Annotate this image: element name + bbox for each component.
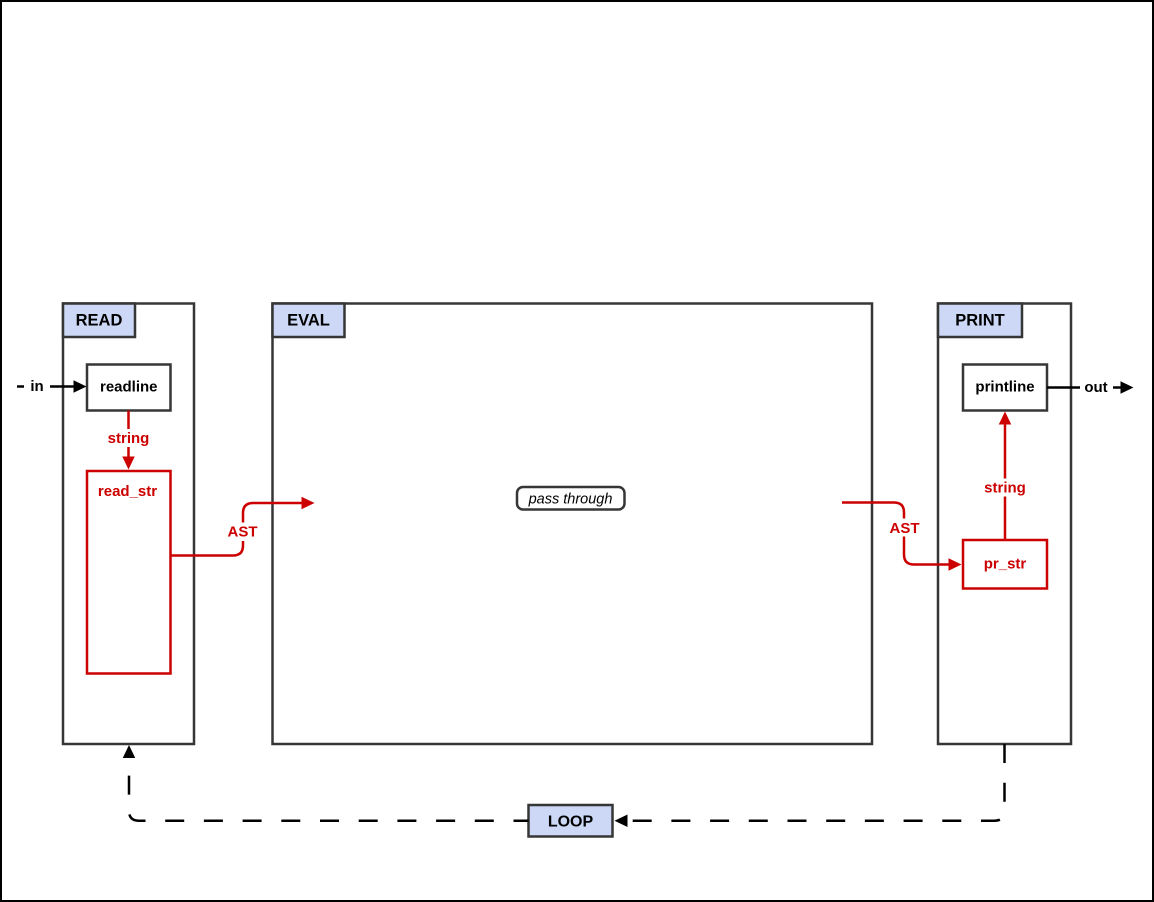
- svg-text:AST: AST: [890, 520, 920, 537]
- string arrow (left, readline -> read_str): [105, 411, 152, 470]
- PRINT label: [938, 304, 1022, 338]
- pr_str box: [963, 540, 1047, 589]
- dashed arrow PRINT -> LOOP: [615, 744, 1005, 827]
- string arrow (right, pr_str -> printline): [981, 412, 1029, 541]
- READ label: [63, 304, 135, 338]
- svg-text:in: in: [30, 378, 43, 395]
- EVAL label: [273, 304, 345, 338]
- svg-text:string: string: [108, 430, 150, 447]
- read_str box: [87, 471, 171, 674]
- printline box: [963, 365, 1047, 411]
- pass through box: [517, 487, 625, 510]
- svg-text:AST: AST: [228, 524, 258, 541]
- svg-text:EVAL: EVAL: [287, 312, 330, 330]
- svg-text:pass through: pass through: [528, 492, 613, 508]
- svg-text:pr_str: pr_str: [984, 556, 1027, 573]
- out arrow: [1047, 379, 1134, 397]
- readline box: [87, 365, 171, 411]
- dashed arrow LOOP -> READ: [123, 745, 529, 821]
- READ outer box: [63, 304, 194, 745]
- svg-text:READ: READ: [76, 312, 123, 330]
- PRINT outer box: [938, 304, 1071, 745]
- in arrow: [17, 378, 87, 396]
- AST arrow (right, EVAL -> pr_str): [842, 503, 962, 571]
- svg-text:read_str: read_str: [98, 483, 157, 500]
- svg-text:LOOP: LOOP: [548, 814, 594, 831]
- AST arrow (left, read_str -> EVAL): [171, 497, 315, 556]
- LOOP box: [529, 805, 613, 837]
- svg-text:readline: readline: [100, 379, 158, 396]
- svg-text:printline: printline: [975, 379, 1034, 396]
- svg-text:string: string: [984, 480, 1026, 497]
- EVAL outer box: [273, 304, 873, 745]
- svg-text:out: out: [1084, 379, 1107, 396]
- svg-text:PRINT: PRINT: [955, 312, 1005, 330]
